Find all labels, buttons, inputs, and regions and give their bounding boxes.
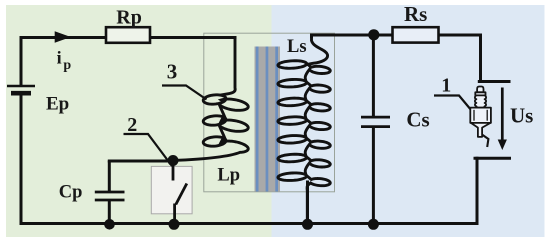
svg-text:Cp: Cp xyxy=(59,183,83,203)
svg-text:2: 2 xyxy=(127,114,137,136)
svg-text:Lp: Lp xyxy=(217,165,240,185)
svg-text:Ls: Ls xyxy=(287,37,307,57)
svg-text:Rs: Rs xyxy=(404,2,427,26)
svg-text:p: p xyxy=(63,58,71,73)
svg-text:Us: Us xyxy=(510,104,533,128)
svg-text:Cs: Cs xyxy=(406,108,429,132)
svg-text:i: i xyxy=(57,48,62,68)
svg-text:Ep: Ep xyxy=(46,93,69,114)
svg-text:Rp: Rp xyxy=(116,7,142,29)
svg-text:1: 1 xyxy=(441,75,451,97)
svg-text:3: 3 xyxy=(167,60,178,84)
